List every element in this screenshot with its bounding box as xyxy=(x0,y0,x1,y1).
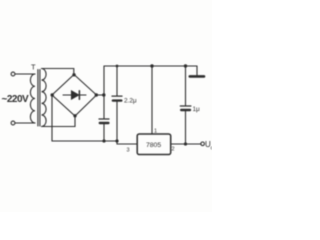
svg-text:7805: 7805 xyxy=(146,142,161,149)
svg-text:T: T xyxy=(31,63,36,72)
svg-text:1: 1 xyxy=(154,129,157,135)
svg-text:2.2μ: 2.2μ xyxy=(124,98,137,105)
svg-text:o: o xyxy=(211,146,213,152)
svg-text:3: 3 xyxy=(127,148,130,154)
svg-text:1μ: 1μ xyxy=(193,106,201,113)
svg-text:~220V: ~220V xyxy=(2,94,30,105)
svg-text:2: 2 xyxy=(172,147,175,153)
